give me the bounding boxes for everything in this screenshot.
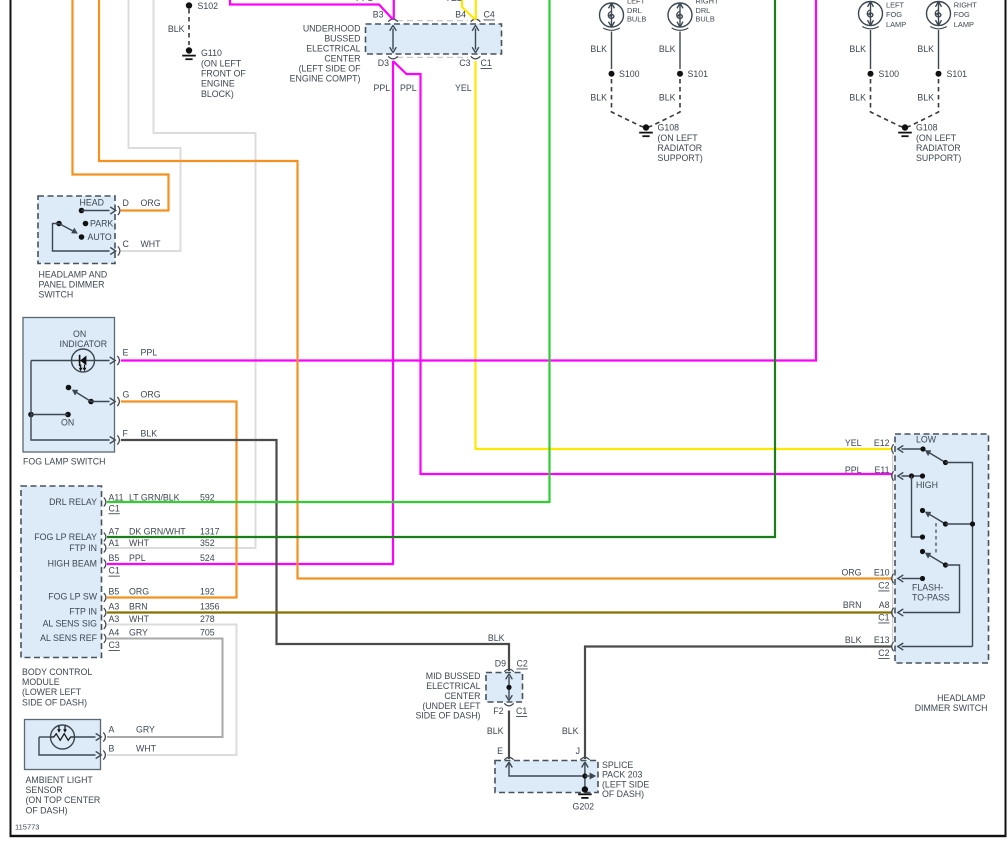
PARK contact	[83, 221, 89, 227]
svg-text:352: 352	[200, 538, 215, 548]
svg-text:RIGHT: RIGHT	[696, 0, 719, 6]
pin E11	[892, 471, 894, 480]
svg-text:1317: 1317	[200, 527, 220, 537]
svg-text:S102: S102	[198, 1, 219, 11]
pin E10	[892, 574, 894, 583]
svg-text:WHT: WHT	[129, 538, 150, 548]
svg-text:FOG LP RELAY: FOG LP RELAY	[34, 532, 97, 542]
wire ORG pin G to BCM B5	[107, 402, 237, 598]
svg-text:LEFT: LEFT	[886, 0, 905, 9]
svg-text:GRY: GRY	[129, 628, 148, 638]
svg-text:RIGHT: RIGHT	[954, 0, 977, 9]
svg-text:PPL: PPL	[129, 553, 146, 563]
wire WHT pin C to top edge	[121, 0, 181, 251]
svg-text:J: J	[576, 746, 580, 756]
svg-text:(LEFT SIDE: (LEFT SIDE	[602, 779, 649, 789]
svg-text:BODY CONTROL: BODY CONTROL	[22, 667, 92, 677]
pin F2	[504, 703, 513, 706]
wire BLK right fog to S101	[938, 30, 940, 69]
svg-text:BRN: BRN	[129, 602, 148, 612]
wire BLK pin F to MBEC D9	[121, 440, 509, 671]
wire PPL into B3 from top edge	[230, 0, 393, 19]
pin C	[110, 247, 116, 254]
svg-text:AUTO: AUTO	[88, 232, 112, 242]
photocell symbol	[51, 725, 75, 749]
svg-text:DRL: DRL	[696, 6, 711, 15]
svg-text:AMBIENT LIGHT: AMBIENT LIGHT	[26, 775, 94, 785]
svg-text:TO-PASS: TO-PASS	[912, 592, 950, 602]
ground G108 (radiator support, fog)	[902, 124, 908, 130]
pin C3	[471, 56, 481, 59]
svg-text:AL SENS REF: AL SENS REF	[40, 633, 97, 643]
body control module box	[21, 486, 102, 658]
wire BLK S100 to G108 (dashed)	[612, 79, 646, 128]
svg-text:S101: S101	[947, 69, 968, 79]
svg-text:FOG LP SW: FOG LP SW	[48, 592, 97, 602]
svg-text:SIDE OF DASH): SIDE OF DASH)	[415, 711, 480, 721]
svg-text:705: 705	[200, 628, 215, 638]
svg-text:ORG: ORG	[141, 198, 161, 208]
svg-text:BULB: BULB	[696, 15, 715, 24]
svg-text:S100: S100	[879, 69, 900, 79]
svg-text:LT GRN/BLK: LT GRN/BLK	[129, 493, 180, 503]
wire BLK S101 to G108 (dashed)	[906, 79, 939, 128]
svg-text:C4: C4	[484, 10, 495, 20]
svg-text:A7: A7	[109, 527, 120, 537]
AUTO contact	[79, 234, 85, 240]
splice S101	[677, 71, 683, 77]
svg-text:BLK: BLK	[590, 93, 607, 103]
svg-text:(LOWER LEFT: (LOWER LEFT	[22, 687, 82, 697]
wire WHT A1 branch from top edge	[107, 0, 256, 548]
pin E13	[892, 642, 894, 651]
svg-text:BLOCK): BLOCK)	[201, 89, 234, 99]
UBEC internal arrow B3-D3	[392, 29, 394, 50]
svg-text:PPL: PPL	[845, 465, 862, 475]
svg-text:B: B	[109, 744, 115, 754]
svg-text:PPL: PPL	[400, 83, 417, 93]
svg-text:A: A	[109, 724, 115, 734]
svg-text:WHT: WHT	[129, 614, 150, 624]
svg-text:D3: D3	[378, 58, 389, 68]
svg-text:AL SENS SIG: AL SENS SIG	[43, 619, 98, 629]
wire lever to pin C	[53, 224, 110, 252]
svg-text:DRL: DRL	[627, 6, 642, 15]
wire BLK left DRL to S100	[611, 32, 613, 70]
svg-text:YEL: YEL	[845, 438, 862, 448]
pin J	[580, 757, 589, 760]
svg-text:RADIATOR: RADIATOR	[916, 143, 961, 153]
svg-text:115773: 115773	[15, 823, 39, 832]
svg-text:B5: B5	[109, 587, 120, 597]
wire lever to right rail	[946, 463, 973, 647]
wire BLK S101 to G108 (dashed)	[647, 79, 680, 128]
svg-text:BLK: BLK	[849, 93, 866, 103]
svg-text:SPLICE: SPLICE	[602, 760, 633, 770]
wire E11 contact down to HIGH contact	[912, 476, 923, 537]
svg-text:BLK: BLK	[488, 633, 505, 643]
svg-text:B5: B5	[109, 553, 120, 563]
svg-text:SIDE OF DASH): SIDE OF DASH)	[22, 697, 87, 707]
svg-text:SENSOR: SENSOR	[26, 785, 63, 795]
E11 contact pair	[902, 475, 923, 477]
svg-text:A4: A4	[109, 628, 120, 638]
svg-text:BLK: BLK	[141, 429, 158, 439]
high beam lever	[930, 514, 946, 524]
svg-text:LEFT: LEFT	[627, 0, 646, 6]
svg-text:ON: ON	[61, 417, 74, 427]
svg-text:BULB: BULB	[627, 15, 646, 24]
svg-text:B4: B4	[455, 10, 466, 20]
wire PPL D3 branch to dimmer E11	[393, 61, 892, 474]
svg-text:ORG: ORG	[129, 587, 149, 597]
UBEC connector C1 edge (light dashed)	[397, 56, 468, 58]
left fog lamp	[859, 0, 907, 29]
wire BLK left fog to S100	[870, 30, 872, 69]
svg-text:HIGH: HIGH	[916, 480, 938, 490]
svg-text:C2: C2	[878, 581, 889, 591]
svg-text:HEADLAMP: HEADLAMP	[937, 693, 986, 703]
ground G110	[186, 47, 192, 53]
svg-text:E13: E13	[874, 635, 890, 645]
wire flash lever to pin A8	[903, 565, 960, 613]
svg-text:BUSSED: BUSSED	[324, 33, 360, 43]
svg-text:G: G	[123, 390, 130, 400]
svg-text:(ON LEFT: (ON LEFT	[916, 133, 957, 143]
svg-text:BLK: BLK	[590, 44, 607, 54]
svg-text:LOW: LOW	[916, 435, 937, 445]
wire WHT BCM A3 to sensor B	[107, 625, 237, 756]
svg-text:PACK 203: PACK 203	[602, 770, 643, 780]
wire BLK F2 to splice pack E	[508, 711, 510, 760]
splice pack internal bus	[506, 762, 513, 768]
wire YEL into B4 from top edge	[462, 0, 475, 20]
svg-text:C3: C3	[459, 58, 470, 68]
pin D9	[504, 669, 513, 672]
svg-text:PPL: PPL	[356, 0, 373, 3]
ground G202	[582, 786, 588, 792]
svg-text:PPL: PPL	[374, 83, 391, 93]
wire BLK S100 to G108 (dashed)	[871, 79, 905, 128]
mid bussed electrical center box	[486, 673, 523, 703]
svg-text:ORG: ORG	[141, 390, 161, 400]
pin A	[96, 733, 102, 740]
svg-text:HEADLAMP AND: HEADLAMP AND	[39, 269, 108, 279]
svg-text:E: E	[123, 348, 129, 358]
flash-to-pass lever	[930, 555, 946, 565]
left DRL bulb	[600, 0, 647, 30]
svg-text:E11: E11	[875, 465, 890, 475]
svg-text:A11: A11	[109, 493, 124, 503]
svg-text:PARK: PARK	[90, 219, 113, 229]
fog switch lever	[66, 385, 72, 391]
svg-text:C1: C1	[516, 706, 527, 716]
svg-text:1356: 1356	[200, 602, 220, 612]
svg-text:S100: S100	[619, 69, 640, 79]
svg-text:LAMP: LAMP	[886, 20, 906, 29]
left rail to pin F	[31, 361, 110, 441]
svg-text:CENTER: CENTER	[324, 53, 360, 63]
svg-text:G108: G108	[916, 123, 938, 133]
wire BLK dimmer E13 to splice pack J	[585, 647, 892, 760]
svg-text:OF DASH): OF DASH)	[602, 789, 644, 799]
svg-text:G110: G110	[201, 48, 222, 58]
svg-text:BLK: BLK	[845, 635, 862, 645]
svg-text:BLK: BLK	[917, 93, 934, 103]
svg-text:INDICATOR: INDICATOR	[60, 339, 108, 349]
svg-text:HEAD: HEAD	[80, 197, 104, 207]
fog lamp switch box	[23, 318, 115, 453]
svg-text:G108: G108	[658, 123, 680, 133]
svg-text:SWITCH: SWITCH	[39, 290, 74, 300]
svg-text:BLK: BLK	[917, 44, 934, 54]
svg-text:ORG: ORG	[841, 568, 861, 578]
pin D3	[388, 56, 398, 59]
svg-text:C3: C3	[109, 640, 120, 650]
selector lever pointing at AUTO	[56, 221, 62, 227]
wire ORG pin D to top edge	[73, 0, 169, 211]
splice S100	[868, 71, 874, 77]
svg-text:FRONT OF: FRONT OF	[201, 69, 246, 79]
svg-text:UNDERHOOD: UNDERHOOD	[303, 23, 361, 33]
right fog lamp	[927, 0, 978, 29]
svg-text:YEL: YEL	[445, 0, 462, 3]
pin B3	[388, 19, 398, 22]
svg-text:MID BUSSED: MID BUSSED	[426, 671, 481, 681]
svg-text:C1: C1	[878, 613, 889, 623]
svg-text:FTP IN: FTP IN	[69, 543, 97, 553]
wire BRN BCM A3 to dimmer A8	[107, 611, 892, 613]
svg-text:E12: E12	[874, 438, 890, 448]
svg-text:C1: C1	[109, 566, 120, 576]
svg-text:BLK: BLK	[659, 93, 676, 103]
svg-text:MODULE: MODULE	[22, 677, 60, 687]
svg-text:F: F	[123, 429, 129, 439]
svg-text:BRN: BRN	[843, 600, 862, 610]
svg-text:FOG LAMP SWITCH: FOG LAMP SWITCH	[23, 457, 105, 467]
svg-text:(ON LEFT: (ON LEFT	[658, 133, 699, 143]
svg-text:WHT: WHT	[141, 239, 162, 249]
wire YEL C3 to dimmer E12	[476, 61, 892, 449]
pin E	[110, 357, 116, 364]
svg-text:PANEL DIMMER: PANEL DIMMER	[39, 280, 105, 290]
pin B4	[471, 19, 481, 22]
mechanical linkage (dashed)	[935, 523, 937, 554]
svg-text:BLK: BLK	[487, 726, 504, 736]
E13 contact line to right rail	[902, 646, 973, 648]
svg-text:278: 278	[200, 614, 215, 624]
wire PPL pin E to top edge	[121, 0, 816, 361]
wire DK GRN/WHT BCM A7 to top edge	[107, 0, 775, 537]
svg-text:(UNDER LEFT: (UNDER LEFT	[422, 701, 481, 711]
pin F	[110, 436, 116, 443]
svg-text:BLK: BLK	[849, 44, 866, 54]
pin G	[110, 398, 116, 405]
svg-text:A3: A3	[109, 602, 120, 612]
LOW contact line from E12	[902, 448, 924, 450]
svg-text:BLK: BLK	[659, 44, 676, 54]
svg-text:ELECTRICAL: ELECTRICAL	[426, 681, 480, 691]
svg-text:D: D	[123, 198, 129, 208]
svg-text:(ON LEFT: (ON LEFT	[201, 58, 242, 68]
svg-text:SUPPORT): SUPPORT)	[916, 153, 961, 163]
svg-text:G202: G202	[573, 802, 595, 812]
right DRL bulb	[668, 0, 719, 30]
svg-text:BLK: BLK	[562, 726, 579, 736]
svg-text:BLK: BLK	[168, 24, 185, 34]
HIGH fixed contact	[920, 508, 925, 513]
dimmer connector edge line	[892, 454, 894, 642]
svg-text:CENTER: CENTER	[444, 691, 480, 701]
wire LT GRN/BLK BCM A11 to top edge	[107, 0, 550, 502]
svg-text:WHT: WHT	[136, 744, 157, 754]
splice S100	[609, 71, 615, 77]
svg-text:(ON TOP CENTER: (ON TOP CENTER	[26, 795, 101, 805]
svg-text:592: 592	[200, 493, 215, 503]
svg-text:DIMMER SWITCH: DIMMER SWITCH	[915, 703, 988, 713]
svg-text:C1: C1	[109, 503, 120, 513]
svg-text:524: 524	[200, 553, 215, 563]
pin A8	[892, 608, 894, 617]
splice S101	[936, 71, 942, 77]
svg-text:D9: D9	[495, 659, 506, 669]
svg-text:FTP IN: FTP IN	[69, 607, 97, 617]
left rail to pin B	[39, 737, 96, 755]
MBEC internal arrow with junction	[508, 677, 510, 699]
underhood bussed electrical center box	[366, 24, 502, 54]
svg-text:A8: A8	[879, 600, 890, 610]
wire ORG from top edge to dimmer E10	[99, 0, 892, 579]
UBEC internal arrow B4-C3	[475, 29, 477, 50]
svg-text:ENGINE COMPT): ENGINE COMPT)	[290, 73, 361, 83]
svg-text:GRY: GRY	[136, 724, 155, 734]
ambient light sensor box	[25, 720, 101, 770]
svg-text:(LEFT SIDE OF: (LEFT SIDE OF	[299, 63, 362, 73]
wire BLK S102 to G110 (dashed)	[188, 9, 190, 45]
svg-text:A1: A1	[109, 538, 120, 548]
wire PPL D3 to BCM B5	[107, 61, 393, 564]
svg-text:C2: C2	[517, 659, 528, 669]
ON contact	[28, 412, 34, 418]
svg-text:E10: E10	[874, 568, 890, 578]
headlamp and panel dimmer switch box	[38, 196, 115, 264]
svg-text:ELECTRICAL: ELECTRICAL	[306, 43, 360, 53]
svg-text:HIGH BEAM: HIGH BEAM	[48, 559, 97, 569]
FLASH fixed contact	[920, 549, 925, 554]
E10 contact line	[902, 578, 923, 580]
svg-text:192: 192	[200, 587, 215, 597]
svg-text:RADIATOR: RADIATOR	[658, 143, 703, 153]
pin E	[504, 757, 513, 760]
svg-text:ON: ON	[73, 329, 86, 339]
svg-text:S101: S101	[688, 69, 709, 79]
dimmer lever (low beam)	[930, 453, 946, 463]
svg-text:F2: F2	[493, 706, 503, 716]
pin B	[96, 751, 102, 758]
svg-text:C: C	[123, 239, 130, 249]
pin E12	[892, 444, 894, 453]
svg-text:FOG: FOG	[954, 10, 970, 19]
svg-text:FOG: FOG	[886, 10, 902, 19]
svg-text:SUPPORT): SUPPORT)	[658, 153, 703, 163]
wire GRY BCM A4 to sensor A	[107, 639, 223, 738]
headlamp dimmer switch box	[895, 434, 989, 663]
svg-text:E: E	[497, 746, 503, 756]
svg-text:ENGINE: ENGINE	[201, 79, 235, 89]
splice pack 203 box	[495, 761, 598, 793]
svg-text:C1: C1	[481, 58, 492, 68]
splice S102	[186, 2, 192, 8]
svg-text:FLASH-: FLASH-	[912, 583, 943, 593]
svg-text:YEL: YEL	[455, 83, 472, 93]
pin D	[110, 207, 116, 214]
svg-text:B3: B3	[373, 10, 384, 20]
svg-text:LAMP: LAMP	[954, 20, 974, 29]
svg-text:PPL: PPL	[141, 348, 158, 358]
svg-text:C2: C2	[878, 648, 889, 658]
svg-text:OF DASH): OF DASH)	[26, 805, 68, 815]
svg-text:DRL RELAY: DRL RELAY	[49, 497, 97, 507]
ground G108 (radiator support, DRL)	[643, 124, 649, 130]
svg-text:DK GRN/WHT: DK GRN/WHT	[129, 527, 186, 537]
svg-text:A3: A3	[109, 614, 120, 624]
wire BLK right DRL to S101	[679, 32, 681, 70]
